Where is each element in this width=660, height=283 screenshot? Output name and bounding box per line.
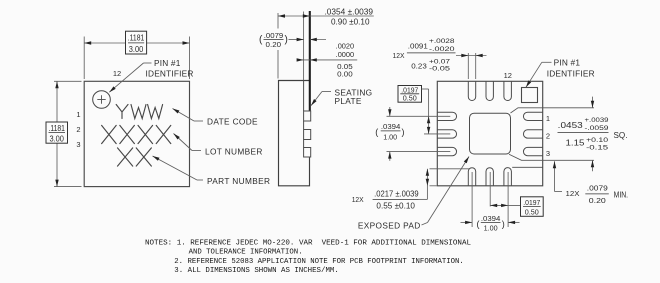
svg-text:+.0028: +.0028 (429, 38, 455, 45)
svg-text:IDENTIFIER: IDENTIFIER (146, 68, 194, 78)
svg-text:(: ( (477, 219, 480, 229)
svg-text:.1181: .1181 (128, 34, 145, 43)
dimension .0197/0.50 pitch (bottom) (490, 204, 520, 206)
terminal pad 11 (top) (486, 81, 493, 100)
terminal pad 4 (bottom) (504, 168, 512, 186)
body right edge upper segment (side view) (303, 81, 305, 112)
package body outline (side view) (279, 81, 310, 186)
leader to seating plane (322, 91, 331, 93)
svg-text:DATE CODE: DATE CODE (207, 117, 258, 127)
svg-text:SQ.: SQ. (614, 131, 628, 140)
svg-text:3. ALL DIMENSIONS SHOWN AS INC: 3. ALL DIMENSIONS SHOWN AS INCHES/MM. (174, 267, 338, 275)
marking part number XX (118, 148, 152, 166)
lead square 1 (side view) (304, 111, 311, 121)
svg-text:+0.07: +0.07 (429, 58, 451, 65)
tie bar line bottom-right (512, 166, 543, 168)
boxed dimension .0197/0.50 (bottom) (521, 197, 544, 217)
leader from left pitch box (422, 88, 429, 90)
svg-text:1: 1 (546, 114, 550, 123)
svg-text:+0.10: +0.10 (586, 137, 609, 144)
svg-text:(: ( (375, 127, 378, 137)
svg-text:12X: 12X (566, 189, 580, 198)
dimension .0354/0.90 overall thickness (278, 15, 374, 17)
dimension .0020/.0000 standoff (298, 59, 358, 61)
svg-text:.0091: .0091 (408, 42, 428, 51)
extension lines for left height dimension (54, 80, 82, 82)
leader to pin1 circle (144, 62, 152, 64)
svg-text:EXPOSED PAD: EXPOSED PAD (358, 220, 421, 230)
svg-text:0.20: 0.20 (266, 40, 282, 49)
seating plane line (309, 11, 311, 111)
package outline (bottom view) (437, 81, 542, 186)
svg-text:.0020: .0020 (336, 41, 355, 50)
dimension 12X .0091 terminal width (top) (467, 53, 469, 79)
terminal pad 12 (top) (504, 81, 512, 100)
svg-text:0.50: 0.50 (525, 207, 539, 216)
terminal pad 3 (right) (523, 147, 542, 155)
extension line pad depth bottom-left (430, 168, 470, 170)
pad center extension lines (left) (387, 115, 451, 117)
svg-text:PART NUMBER: PART NUMBER (207, 176, 270, 186)
svg-text:0.20: 0.20 (589, 196, 606, 205)
svg-text:PIN #1: PIN #1 (154, 58, 181, 68)
svg-text:.0354 ±.0039: .0354 ±.0039 (325, 7, 374, 16)
dimension 12X .0079/0.20 MIN (bottom right) (554, 161, 556, 191)
svg-text:3.00: 3.00 (49, 134, 64, 143)
svg-text:1.00: 1.00 (484, 224, 498, 233)
terminal pad 6 (bottom) (468, 168, 475, 186)
dimension .0453 exposed pad size (right) (592, 97, 594, 108)
svg-text:MIN.: MIN. (614, 190, 629, 199)
svg-text:2. REFERENCE 52083 APPLICATION: 2. REFERENCE 52083 APPLICATION NOTE FOR … (174, 258, 464, 266)
dimension line .1181/3.00 top (84, 42, 125, 44)
reference dimension (.0394/1.00) bottom (461, 221, 473, 223)
body right edge segments between leads (side view) (303, 121, 305, 130)
svg-text:0.90 ±0.10: 0.90 ±0.10 (331, 17, 370, 26)
extension lines for top width dimension (83, 37, 85, 80)
svg-text:0.00: 0.00 (337, 69, 353, 78)
svg-text:3: 3 (546, 149, 550, 158)
boxed dimension text .1181 over 3.00 (top) (126, 31, 147, 54)
svg-text:12X: 12X (393, 51, 405, 60)
svg-text:.0453: .0453 (558, 121, 583, 130)
boxed dimension text .1181 over 3.00 (left) (46, 122, 68, 143)
lead square 3 (side view) (304, 148, 311, 158)
svg-text:12X: 12X (352, 195, 364, 204)
svg-text:1.15: 1.15 (566, 139, 586, 148)
svg-text:-0.05: -0.05 (429, 66, 451, 73)
svg-text:PIN #1: PIN #1 (554, 58, 581, 68)
svg-text:12: 12 (504, 71, 512, 80)
svg-text:IDENTIFIER: IDENTIFIER (547, 68, 595, 78)
lead square 2 (side view) (304, 130, 311, 140)
bottom edge extension left (430, 185, 437, 187)
svg-text:NOTES: 1. REFERENCE JEDEC MO-2: NOTES: 1. REFERENCE JEDEC MO-220. VAR VE… (145, 240, 471, 248)
exposed pad (470, 113, 511, 154)
svg-text:2: 2 (76, 125, 80, 134)
svg-text:): ) (502, 219, 505, 229)
extension from exposed pad bottom-right corner (509, 154, 594, 160)
svg-text:1.00: 1.00 (383, 133, 397, 142)
terminal pad 8 (left) (437, 130, 456, 138)
boxed dimension .0197/0.50 pitch (left) (398, 86, 422, 103)
svg-text:0.55 ±0.10: 0.55 ±0.10 (376, 201, 415, 210)
extension from exposed pad top-right corner (511, 108, 595, 113)
svg-text:3: 3 (76, 140, 80, 149)
svg-text:2: 2 (546, 131, 550, 140)
leader to lot number marking (192, 150, 201, 152)
leader to pin1 identifier square (542, 61, 552, 63)
svg-text:.0197: .0197 (523, 198, 540, 207)
svg-text:.0079: .0079 (587, 184, 608, 193)
pad center extension lines (bottom) (471, 172, 473, 227)
dimension line .1181/3.00 left (56, 81, 58, 122)
terminal pad 9 (left) (437, 112, 456, 120)
svg-text:-.0020: -.0020 (429, 46, 455, 53)
terminal pad 2 (right) (523, 130, 542, 138)
terminal pad 7 (left) (437, 147, 456, 155)
svg-text:AND TOLERANCE INFORMATION.: AND TOLERANCE INFORMATION. (189, 249, 303, 257)
svg-text:1: 1 (76, 110, 80, 119)
terminal pad 10 (top) (468, 81, 475, 100)
svg-text:3.00: 3.00 (129, 45, 144, 54)
svg-text:.0000: .0000 (336, 50, 355, 59)
leader to date code marking (194, 120, 203, 122)
extension line from body left edge up (277, 13, 279, 29)
svg-text:.0394: .0394 (481, 214, 501, 223)
svg-text:12: 12 (113, 69, 121, 78)
svg-text:.0394: .0394 (381, 122, 401, 131)
terminal pad 5 (bottom) (486, 168, 493, 186)
svg-text:0.50: 0.50 (403, 94, 417, 103)
marking date code YWW (116, 105, 162, 119)
svg-text:.1181: .1181 (48, 124, 65, 133)
pin #1 identifier square (bottom view) (522, 88, 538, 103)
svg-text:-.0059: -.0059 (585, 125, 610, 132)
leader to part number marking (197, 179, 203, 181)
terminal pad 1 (right) (523, 112, 542, 120)
marking lot number XXXX (102, 125, 171, 143)
extension line lead face up (303, 12, 305, 81)
svg-text:-0.15: -0.15 (586, 145, 609, 152)
leader to exposed pad (422, 223, 428, 226)
svg-text:LOT NUMBER: LOT NUMBER (205, 146, 263, 156)
pin #1 identifier circle with cross (93, 91, 111, 109)
svg-text:0.23: 0.23 (411, 62, 427, 71)
svg-text:.0217 ±.0039: .0217 ±.0039 (374, 190, 419, 199)
svg-text:+.0039: +.0039 (585, 117, 610, 124)
svg-text:): ) (285, 35, 288, 46)
svg-text:): ) (402, 127, 405, 137)
package outline (top marking view) (84, 81, 189, 186)
svg-text:PLATE: PLATE (335, 96, 362, 106)
